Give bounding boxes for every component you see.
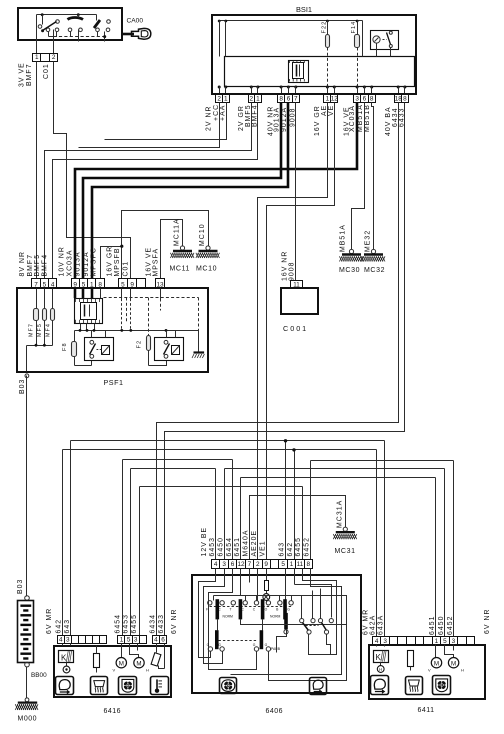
svg-text:642: 642 [287, 542, 294, 557]
svg-text:5: 5 [127, 636, 131, 643]
svg-text:K: K [376, 653, 382, 662]
svg-text:MC30: MC30 [339, 267, 360, 274]
svg-text:6453: 6453 [209, 537, 216, 557]
svg-text:M: M [136, 660, 141, 667]
svg-text:V: V [428, 667, 431, 672]
svg-text:2: 2 [217, 95, 221, 102]
svg-text:MC31: MC31 [335, 548, 356, 555]
svg-text:6434: 6434 [150, 614, 157, 634]
svg-text:MC10: MC10 [196, 266, 217, 273]
svg-text:16V GR: 16V GR [314, 105, 321, 136]
svg-text:642A: 642A [369, 615, 376, 635]
svg-text:8V NR: 8V NR [19, 251, 26, 277]
svg-text:T: T [230, 608, 232, 612]
svg-text:6V MR: 6V MR [46, 608, 53, 634]
svg-text:1: 1 [90, 281, 94, 288]
svg-text:F8: F8 [62, 342, 68, 351]
svg-text:BSI1: BSI1 [296, 5, 312, 14]
svg-text:NORM: NORM [223, 615, 234, 619]
svg-text:MC32: MC32 [364, 267, 385, 274]
svg-text:6: 6 [161, 636, 165, 643]
svg-text:642: 642 [56, 619, 63, 634]
svg-text:H: H [146, 668, 149, 673]
svg-text:6450: 6450 [438, 615, 445, 635]
svg-text:16V GR: 16V GR [107, 246, 114, 277]
svg-text:3: 3 [383, 638, 387, 645]
svg-text:G: G [287, 608, 290, 612]
svg-text:6455: 6455 [131, 614, 138, 634]
svg-text:6: 6 [287, 95, 291, 102]
svg-text:10V NR: 10V NR [59, 246, 66, 276]
svg-text:H: H [379, 667, 382, 672]
svg-text:3: 3 [355, 95, 359, 102]
svg-text:12: 12 [331, 95, 339, 102]
svg-text:MF5: MF5 [37, 323, 43, 337]
svg-text:BMF7: BMF7 [27, 254, 34, 277]
svg-text:V: V [113, 668, 116, 673]
svg-text:CA00: CA00 [127, 18, 144, 25]
svg-text:+AA: +AA [220, 105, 227, 121]
svg-text:4: 4 [214, 561, 218, 568]
svg-text:M: M [119, 660, 124, 667]
svg-text:6V NR: 6V NR [171, 608, 178, 634]
svg-text:M000: M000 [18, 716, 38, 723]
svg-text:3V VE: 3V VE [19, 62, 26, 87]
svg-text:PARB: PARB [271, 647, 281, 651]
svg-text:16V NR: 16V NR [281, 251, 288, 281]
svg-text:VE: VE [328, 105, 335, 116]
svg-text:6406: 6406 [266, 708, 284, 715]
svg-text:XC03A: XC03A [66, 249, 73, 276]
svg-text:C01: C01 [122, 261, 129, 277]
svg-text:6452: 6452 [447, 615, 454, 635]
svg-text:1: 1 [120, 636, 124, 643]
svg-text:11: 11 [293, 282, 300, 289]
svg-text:M: M [451, 660, 456, 667]
svg-text:3: 3 [134, 636, 138, 643]
svg-text:K: K [61, 653, 67, 662]
svg-text:BMF7: BMF7 [26, 63, 33, 86]
svg-text:6411: 6411 [418, 707, 435, 714]
svg-text:VE1: VE1 [260, 540, 267, 556]
svg-text:MF4: MF4 [45, 323, 51, 337]
svg-text:9: 9 [264, 561, 268, 568]
svg-text:3: 3 [452, 638, 456, 645]
svg-text:BB00: BB00 [31, 672, 47, 679]
svg-text:1: 1 [290, 561, 294, 568]
svg-text:8: 8 [403, 95, 407, 102]
svg-text:5: 5 [443, 638, 447, 645]
svg-text:1: 1 [35, 54, 39, 61]
svg-text:7: 7 [34, 281, 38, 288]
svg-text:MPSFA: MPSFA [153, 248, 160, 277]
svg-text:5: 5 [82, 281, 86, 288]
svg-text:G: G [218, 643, 221, 647]
svg-text:6454: 6454 [115, 614, 122, 634]
svg-text:2V NR: 2V NR [206, 105, 213, 131]
svg-text:PSF1: PSF1 [104, 378, 124, 387]
svg-text:MB51A: MB51A [340, 224, 347, 252]
svg-text:MPSFB: MPSFB [114, 248, 121, 277]
svg-text:11: 11 [297, 561, 304, 568]
svg-text:12: 12 [237, 561, 245, 568]
svg-text:9013A: 9013A [274, 107, 281, 132]
svg-text:6433: 6433 [158, 614, 165, 634]
svg-text:G: G [207, 643, 210, 647]
svg-text:2: 2 [52, 54, 56, 61]
svg-text:9008: 9008 [289, 261, 296, 281]
svg-text:MC11: MC11 [170, 266, 191, 273]
svg-text:6: 6 [363, 95, 367, 102]
svg-text:643: 643 [64, 619, 71, 634]
svg-text:MPSFC: MPSFC [90, 247, 97, 276]
svg-text:G: G [253, 643, 256, 647]
svg-text:4: 4 [51, 281, 55, 288]
svg-text:40V BA: 40V BA [385, 106, 392, 136]
svg-text:9013A: 9013A [74, 251, 81, 276]
svg-text:G: G [265, 643, 268, 647]
svg-text:6450: 6450 [217, 537, 224, 557]
svg-text:6451: 6451 [234, 537, 241, 557]
svg-text:BMF5: BMF5 [34, 254, 41, 277]
svg-text:MC10: MC10 [199, 223, 206, 246]
svg-text:MB51B: MB51B [364, 104, 371, 132]
svg-text:8: 8 [370, 95, 374, 102]
svg-text:2: 2 [256, 561, 260, 568]
svg-text:XC03A: XC03A [349, 105, 356, 132]
svg-text:F22: F22 [321, 21, 327, 34]
svg-text:NORM: NORM [270, 615, 281, 619]
svg-text:2V GR: 2V GR [238, 105, 245, 131]
svg-text:6454: 6454 [226, 537, 233, 557]
svg-text:3: 3 [66, 636, 70, 643]
svg-text:F14: F14 [351, 21, 357, 34]
svg-text:6: 6 [231, 561, 235, 568]
svg-text:1: 1 [256, 95, 260, 102]
svg-text:5: 5 [121, 281, 125, 288]
svg-text:F: F [206, 608, 208, 612]
svg-text:8: 8 [98, 281, 102, 288]
svg-text:MC31A: MC31A [336, 500, 343, 528]
svg-text:643A: 643A [378, 615, 385, 635]
svg-text:643: 643 [279, 542, 286, 557]
svg-text:M640A: M640A [243, 529, 250, 556]
svg-text:9: 9 [73, 281, 77, 288]
svg-text:12V BE: 12V BE [201, 527, 208, 557]
svg-text:5: 5 [43, 281, 47, 288]
svg-text:F2: F2 [136, 340, 142, 349]
svg-text:5: 5 [281, 561, 285, 568]
svg-text:9: 9 [130, 281, 134, 288]
svg-text:3: 3 [222, 561, 226, 568]
svg-text:BMF4: BMF4 [42, 254, 49, 277]
svg-text:6416: 6416 [104, 708, 122, 715]
svg-text:2: 2 [250, 95, 254, 102]
svg-text:1: 1 [224, 95, 228, 102]
svg-text:13: 13 [156, 281, 164, 288]
svg-text:9012A: 9012A [83, 251, 90, 276]
svg-text:C001: C001 [283, 324, 308, 333]
svg-text:4: 4 [154, 636, 158, 643]
svg-text:6455: 6455 [295, 537, 302, 557]
svg-text:4: 4 [375, 638, 379, 645]
svg-text:H: H [461, 667, 464, 672]
svg-text:6452: 6452 [304, 537, 311, 557]
svg-text:1: 1 [435, 638, 439, 645]
svg-text:ME32: ME32 [364, 230, 371, 252]
svg-text:MC11A: MC11A [174, 218, 181, 246]
svg-text:6451: 6451 [429, 615, 436, 635]
svg-text:C01: C01 [43, 63, 50, 79]
svg-text:16V VE: 16V VE [145, 247, 152, 277]
svg-text:B03: B03 [17, 579, 24, 594]
svg-text:7: 7 [294, 95, 298, 102]
svg-text:O: O [265, 608, 268, 612]
svg-text:7: 7 [248, 561, 252, 568]
svg-text:8: 8 [307, 561, 311, 568]
svg-text:6453: 6453 [122, 614, 129, 634]
svg-text:B03: B03 [19, 379, 26, 394]
svg-text:4: 4 [59, 636, 63, 643]
svg-text:8: 8 [279, 95, 283, 102]
svg-text:AE20E: AE20E [251, 530, 258, 557]
svg-text:6V NR: 6V NR [484, 608, 491, 634]
svg-text:MF7: MF7 [29, 323, 35, 337]
svg-text:1: 1 [326, 95, 330, 102]
svg-text:M: M [434, 660, 439, 667]
